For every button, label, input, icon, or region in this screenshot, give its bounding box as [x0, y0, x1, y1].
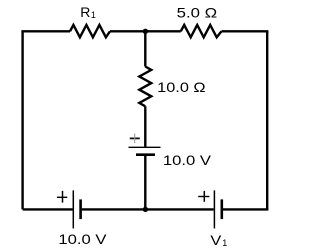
node junction dot top	[143, 29, 148, 34]
svg-text:10.0 Ω: 10.0 Ω	[157, 79, 205, 95]
svg-text:10.0 V: 10.0 V	[163, 152, 212, 168]
wire: top middle segment	[110, 30, 181, 32]
label R1	[80, 4, 96, 20]
battery V1 short plate	[221, 199, 224, 219]
svg-text:5.0 Ω: 5.0 Ω	[177, 5, 218, 21]
wire: bottom middle segment	[82, 208, 214, 210]
svg-text:10.0 V: 10.0 V	[58, 231, 107, 247]
wire: top-left segment to R1	[21, 30, 70, 32]
resistor 10.0 ohm (vertical)	[139, 67, 151, 107]
battery V1 plus sign	[198, 191, 209, 202]
battery B2 (middle) short plate	[136, 153, 155, 156]
wire: middle branch bottom stub	[144, 156, 146, 210]
wire: middle branch between resistor and battery	[144, 106, 146, 147]
svg-text:R: R	[80, 4, 90, 20]
battery B2 (middle) plus sign	[130, 134, 140, 144]
node junction dot bottom	[143, 207, 148, 212]
wire: right vertical side	[266, 31, 268, 209]
wire: middle branch top stub	[144, 31, 146, 66]
svg-text:1: 1	[222, 238, 227, 248]
wire: bottom-left segment	[23, 208, 73, 210]
battery B1 plus sign	[57, 191, 67, 203]
battery V1 long plate	[213, 190, 215, 228]
svg-text:1: 1	[91, 10, 96, 20]
label V1	[210, 232, 227, 248]
battery B2 (middle) long plate	[129, 146, 161, 148]
wire: left vertical side	[21, 31, 23, 209]
svg-text:V: V	[210, 232, 222, 248]
resistor 5.0 ohm	[181, 25, 222, 37]
resistor R1	[70, 25, 110, 37]
battery B1 long plate	[72, 190, 74, 228]
wire: top-right segment	[222, 30, 269, 32]
battery B1 short plate	[79, 199, 82, 219]
wire: bottom-right segment	[223, 208, 269, 210]
